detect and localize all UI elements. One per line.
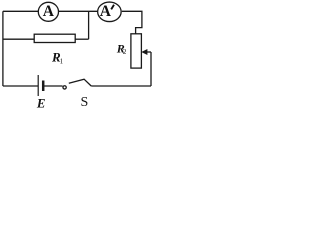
svg-text:A: A <box>100 3 112 20</box>
svg-text:1: 1 <box>60 58 64 66</box>
svg-text:2: 2 <box>123 48 127 56</box>
svg-text:S: S <box>81 95 89 110</box>
svg-text:E: E <box>36 96 46 110</box>
svg-text:A: A <box>43 3 55 20</box>
